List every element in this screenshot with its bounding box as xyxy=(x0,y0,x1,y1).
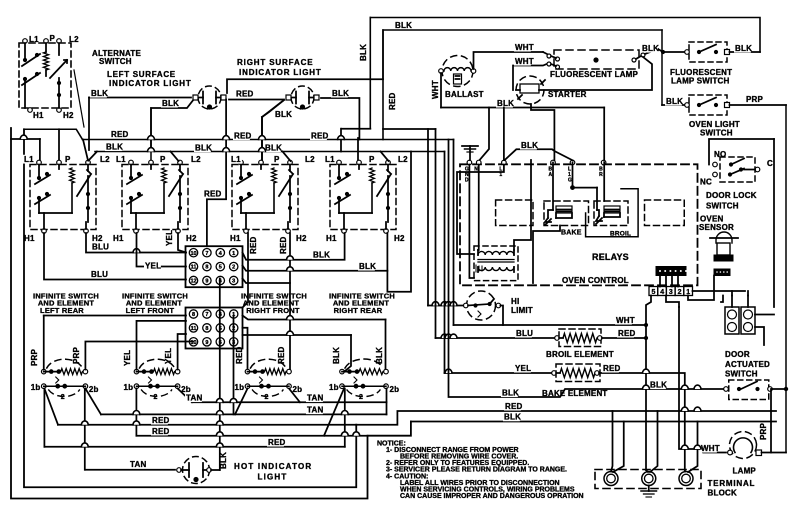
label BLK door2 xyxy=(649,380,667,389)
label RED between lights xyxy=(235,89,254,98)
label RED bus 2 xyxy=(233,131,252,140)
oven control pin label N xyxy=(474,167,478,173)
wire bake out xyxy=(533,226,560,284)
wire starter to BA xyxy=(531,104,554,160)
label INDICATOR LIGHT xyxy=(109,79,192,88)
broil element xyxy=(555,329,602,347)
svg-text:BLK: BLK xyxy=(195,144,212,153)
labels H row xyxy=(24,234,405,243)
hi limit xyxy=(464,291,501,320)
svg-text:10: 10 xyxy=(190,251,196,257)
junction fluor xyxy=(661,50,665,54)
label SWITCH oven light xyxy=(700,129,733,138)
svg-text:BLK: BLK xyxy=(666,97,683,106)
label BLK top xyxy=(394,21,412,30)
svg-text:H2: H2 xyxy=(63,111,74,120)
label HI xyxy=(511,297,519,306)
label LIMIT xyxy=(511,306,533,315)
alternate switch terminal P xyxy=(44,39,49,44)
labels L1 P L2 bank 3 xyxy=(230,155,316,164)
svg-text:BLU: BLU xyxy=(92,243,109,252)
svg-text:TAN: TAN xyxy=(186,394,202,403)
label RED vert 3 xyxy=(235,346,244,364)
label OVEN CONTROL xyxy=(561,276,629,285)
wire TAN a xyxy=(192,401,387,403)
oven control terminal L1 xyxy=(502,160,507,165)
svg-text:BLK: BLK xyxy=(106,143,123,152)
svg-text:TAN: TAN xyxy=(307,394,323,403)
label BAKE ELEMENT xyxy=(542,389,608,398)
wire right light to vert xyxy=(321,98,359,129)
wire conn lower r1 xyxy=(243,316,386,370)
wire door sw out xyxy=(772,387,788,391)
label INFINITE SWITCH 2 xyxy=(122,292,188,301)
label RED long xyxy=(504,402,523,411)
wire L2 feeds xyxy=(83,140,389,162)
label RED broil xyxy=(617,329,636,338)
wire sw2 left up xyxy=(137,321,187,370)
svg-text:RED: RED xyxy=(311,132,329,141)
svg-text:SENSOR: SENSOR xyxy=(699,223,734,232)
wire vert 371 down xyxy=(369,18,371,129)
svg-text:BLOCK: BLOCK xyxy=(708,489,737,498)
labels L1 P L2 bank 4 xyxy=(324,155,409,164)
label OVEN sensor xyxy=(700,215,723,224)
svg-text:BLK: BLK xyxy=(735,44,752,53)
wire left rail 1 xyxy=(11,128,411,499)
svg-text:BLK: BLK xyxy=(332,89,349,98)
svg-text:BLU: BLU xyxy=(91,270,108,279)
wire H2-2 drop xyxy=(178,233,186,253)
label WHT long xyxy=(615,316,635,325)
svg-text:TAN: TAN xyxy=(130,460,146,469)
label LEFT REAR xyxy=(40,306,84,315)
surface switch bank 1 xyxy=(30,160,96,233)
svg-text:BALLAST: BALLAST xyxy=(445,90,484,99)
crossing jumps bottom xyxy=(81,398,359,446)
surface switch bank 3 xyxy=(232,160,298,233)
wire BLK lower to left light xyxy=(151,99,194,150)
wire BLK bus xyxy=(95,151,445,153)
svg-text:9: 9 xyxy=(205,279,208,285)
wire plugA up xyxy=(731,296,733,308)
svg-text:RED: RED xyxy=(152,416,170,425)
svg-text:H2: H2 xyxy=(296,234,307,243)
label RED vert H23 xyxy=(279,236,288,254)
wire P4 feed xyxy=(357,138,359,160)
wire BLU 1 xyxy=(86,233,186,253)
label LAMP SWITCH xyxy=(671,77,730,86)
crossing jumps hi limit xyxy=(432,302,457,306)
label BLK oven light xyxy=(665,97,683,106)
svg-text:BROIL ELEMENT: BROIL ELEMENT xyxy=(546,350,614,359)
transformer bottom coil xyxy=(478,267,514,272)
label WHT1 xyxy=(514,43,534,52)
label STARTER xyxy=(548,90,587,99)
label RED bus 1 xyxy=(110,130,129,139)
wire vert 383 down xyxy=(382,30,384,140)
wire RED bus xyxy=(83,139,454,141)
label PRP xyxy=(745,95,764,104)
label TAN hot xyxy=(129,460,146,469)
svg-text:A: A xyxy=(549,172,553,178)
svg-text:C: C xyxy=(767,159,773,168)
ballast right terminal xyxy=(471,69,476,74)
label SWITCH door lock xyxy=(706,202,739,211)
svg-text:WHT: WHT xyxy=(701,444,720,453)
label RED bottom 3 xyxy=(267,438,286,447)
oven control pin label BR xyxy=(599,167,603,178)
svg-text:BLK: BLK xyxy=(650,381,667,390)
svg-text:RED: RED xyxy=(603,364,621,373)
wire conn blocks link xyxy=(219,279,221,342)
wire cluster top line xyxy=(383,128,436,130)
label RIGHT FRONT xyxy=(246,306,300,315)
label AND ELEMENT 3 xyxy=(243,299,300,308)
svg-text:H1: H1 xyxy=(113,234,124,243)
label BLU 1 xyxy=(91,242,109,251)
wire sw1 right up xyxy=(85,342,193,370)
label BLK vert 4 xyxy=(375,347,384,364)
wire WHT1 xyxy=(474,52,550,69)
label NO xyxy=(714,150,726,159)
plug block B xyxy=(741,307,755,334)
label BAKE xyxy=(561,230,582,237)
wire RED long xyxy=(356,411,776,425)
svg-text:SWITCH: SWITCH xyxy=(725,370,758,379)
label BROIL ELEMENT xyxy=(546,350,614,359)
label DOOR LOCK xyxy=(706,191,757,200)
svg-text:HOT INDICATOR: HOT INDICATOR xyxy=(234,462,312,471)
wire RED bottom 3 xyxy=(44,446,344,448)
svg-text:2: 2 xyxy=(232,265,235,271)
wire vert 774 xyxy=(773,139,775,307)
label RED bottom 2 xyxy=(151,427,170,436)
wire conn lower r2 xyxy=(243,328,248,370)
svg-text:RED: RED xyxy=(249,236,258,254)
wire conn pins down xyxy=(220,316,234,471)
label INFINITE SWITCH 3 xyxy=(241,292,307,301)
svg-text:L2: L2 xyxy=(398,155,408,164)
svg-text:PRP: PRP xyxy=(759,422,768,440)
wire strip 1 right xyxy=(688,276,714,301)
label BLK fluor sw left xyxy=(641,44,659,53)
svg-text:1b: 1b xyxy=(329,383,339,392)
svg-text:R: R xyxy=(599,172,603,178)
svg-text:7: 7 xyxy=(205,251,208,257)
wire u4 2b vert xyxy=(386,389,388,415)
label ALTERNATE xyxy=(92,49,142,58)
wire WHT long xyxy=(454,140,647,326)
svg-text:RED: RED xyxy=(152,427,170,436)
wire plug feeds xyxy=(721,296,774,346)
label AND ELEMENT 1 xyxy=(38,299,95,308)
strip wires xyxy=(660,276,678,287)
svg-text:3: 3 xyxy=(669,289,673,296)
svg-text:RED: RED xyxy=(279,236,288,254)
svg-text:BLK: BLK xyxy=(521,141,538,150)
wire u2 2b diag xyxy=(178,389,192,403)
svg-text:H2: H2 xyxy=(186,234,197,243)
wire H2-3 drop xyxy=(243,233,291,370)
wire GND drop xyxy=(469,165,474,279)
label RED bus 3 xyxy=(310,131,329,140)
wire RED broil xyxy=(602,337,646,339)
wire vert V1 xyxy=(646,296,651,471)
wire RED bottom 1 xyxy=(58,424,356,426)
label H2 xyxy=(63,111,74,120)
crossing jumps right xyxy=(643,369,701,449)
svg-text:OVEN CONTROL: OVEN CONTROL xyxy=(562,276,629,285)
label NC xyxy=(700,178,712,187)
label INFINITE SWITCH 1 xyxy=(33,292,99,301)
wire T2 feeds xyxy=(646,411,658,472)
oven control box xyxy=(460,164,698,285)
fluorescent lamp box xyxy=(554,50,639,69)
wire T3 feeds xyxy=(685,422,698,473)
label BLK left light xyxy=(90,89,108,98)
wire BLK relay path xyxy=(505,149,573,160)
wire plugB up xyxy=(747,296,749,308)
svg-text:L2: L2 xyxy=(191,155,201,164)
label RED bake xyxy=(602,364,621,373)
svg-text:WHT: WHT xyxy=(616,316,635,325)
wire sw2 right up xyxy=(178,334,186,370)
svg-text:L2: L2 xyxy=(69,35,79,44)
connector block upper xyxy=(186,246,243,287)
oven control terminal strip xyxy=(649,287,693,297)
wire BLK diag to right light xyxy=(262,100,284,160)
svg-text:BAKE: BAKE xyxy=(561,230,582,237)
wire switch out BLK xyxy=(730,51,761,53)
label FLUORESCENT LAMP xyxy=(550,70,639,79)
svg-text:RED: RED xyxy=(235,346,244,364)
label BLK H24 xyxy=(358,262,376,271)
infinite switch unit 3 xyxy=(245,359,291,401)
label BLK 3 xyxy=(274,110,292,119)
label RED bottom 1 xyxy=(151,416,170,425)
svg-text:HI: HI xyxy=(511,297,519,306)
svg-text:SWITCH: SWITCH xyxy=(700,129,733,138)
labels 1b 2b unit 1 xyxy=(31,383,99,394)
labels 1b 2b unit 4 xyxy=(329,383,399,394)
wire H2-4 drop xyxy=(243,152,412,292)
wire to oven light switch xyxy=(662,104,685,106)
label L1 xyxy=(29,35,39,44)
ballast circle xyxy=(442,56,473,87)
bake relay box xyxy=(544,201,589,226)
label BLK oven feed xyxy=(496,99,514,108)
fluorescent lamp right pin xyxy=(632,49,658,62)
label BLU element xyxy=(515,329,533,338)
svg-text:PRP: PRP xyxy=(30,348,39,366)
label ACTUATED xyxy=(725,360,770,369)
label PRP vert 1 xyxy=(30,348,39,366)
svg-text:2b: 2b xyxy=(390,385,400,394)
wire P2 feed xyxy=(150,108,152,160)
svg-text:BLK: BLK xyxy=(504,413,521,422)
wire left rail 2 xyxy=(24,129,356,487)
svg-text:L1: L1 xyxy=(29,35,39,44)
wire u3 2b diag xyxy=(289,389,300,403)
label RED vert xyxy=(388,92,397,110)
svg-text:H1: H1 xyxy=(326,234,337,243)
svg-text:8: 8 xyxy=(192,312,195,318)
label RED vert 4 xyxy=(277,346,286,364)
label BLK door xyxy=(501,388,519,397)
svg-text:YEL: YEL xyxy=(145,262,161,271)
terminal block T3 xyxy=(679,472,693,486)
wire hi limit feed xyxy=(428,129,464,306)
svg-text:BLK: BLK xyxy=(395,21,412,30)
label LEFT FRONT xyxy=(126,306,175,315)
label LAMP xyxy=(733,467,757,476)
svg-text:2b: 2b xyxy=(89,385,99,394)
broil relay internals xyxy=(596,206,620,224)
labels L1 P L2 bank 2 xyxy=(115,155,202,164)
hot indicator light xyxy=(177,457,212,484)
wire T1 feeds xyxy=(611,411,624,472)
label YEL vert 2 xyxy=(123,350,132,366)
label BLK vert xyxy=(359,44,368,61)
svg-text:P: P xyxy=(160,155,166,164)
svg-text:11: 11 xyxy=(191,265,197,271)
left surface indicator light xyxy=(193,86,226,110)
svg-text:H2: H2 xyxy=(394,234,405,243)
svg-text:RIGHT REAR: RIGHT REAR xyxy=(334,306,383,315)
label PRP vert 2 xyxy=(72,346,81,364)
wire TAN hot light xyxy=(85,469,175,471)
label WHT lamp xyxy=(700,444,720,453)
svg-text:L2: L2 xyxy=(100,155,110,164)
wire u1 1b vert xyxy=(43,389,45,447)
svg-text:RELAYS: RELAYS xyxy=(592,252,629,262)
oven control connector block xyxy=(656,267,687,276)
oven sensor xyxy=(710,232,738,261)
svg-text:YEL: YEL xyxy=(123,350,132,366)
alternate switch pointer wire xyxy=(74,70,84,127)
svg-text:12: 12 xyxy=(190,279,196,285)
wire BLK to left light xyxy=(89,98,191,151)
svg-text:LEFT SURFACE: LEFT SURFACE xyxy=(107,70,176,79)
right surface indicator light xyxy=(286,86,319,110)
labels L1 P L2 bank 1 xyxy=(23,155,111,164)
wire RED bottom 2 xyxy=(136,435,367,437)
label RED vert H3 xyxy=(249,236,258,254)
wire H1-4 drop xyxy=(243,233,345,260)
svg-text:5: 5 xyxy=(652,289,656,296)
wire P1 feed xyxy=(58,129,60,160)
wire RED drop to connector xyxy=(207,100,226,247)
wire vert 662 xyxy=(661,30,663,105)
alternate switch internals xyxy=(22,43,67,108)
terminal block T2 xyxy=(642,472,656,486)
wire P3 feed xyxy=(262,100,284,160)
svg-text:BLK: BLK xyxy=(265,144,282,153)
label WHT vert ballast xyxy=(431,80,440,99)
label INDICATOR LIGHT 2 xyxy=(239,68,322,77)
relay placeholder box left xyxy=(496,200,533,226)
svg-text:BLK: BLK xyxy=(162,99,179,108)
svg-text:LAMP: LAMP xyxy=(733,467,757,476)
wire plug strip h xyxy=(693,291,749,296)
label SWITCH actuated xyxy=(725,370,758,379)
svg-text:7: 7 xyxy=(205,312,208,318)
wire lamp right xyxy=(762,389,787,453)
door actuated switch box xyxy=(729,380,769,400)
svg-text:WHT: WHT xyxy=(515,57,534,66)
labels 1b 2b unit 3 xyxy=(235,383,303,394)
starter internals xyxy=(516,80,545,99)
door lock switch box xyxy=(720,157,755,182)
svg-text:2b: 2b xyxy=(293,385,303,394)
fluorescent lamp switch box xyxy=(689,42,727,62)
wire L1 drop xyxy=(503,108,505,161)
junction V1 red xyxy=(644,336,648,340)
label SWITCH xyxy=(99,57,132,66)
alternate switch terminal L2t xyxy=(57,39,62,44)
lamp xyxy=(728,432,762,459)
notice block xyxy=(377,441,584,500)
svg-text:11: 11 xyxy=(191,326,197,332)
wire u4 1b vert xyxy=(344,389,346,447)
bake element xyxy=(552,364,600,382)
label H1 xyxy=(33,111,44,120)
svg-text:G: G xyxy=(568,177,572,183)
oven control pin label GND xyxy=(465,167,469,184)
svg-text:CAN CAUSE IMPROPER AND DANGERO: CAN CAUSE IMPROPER AND DANGEROUS OPRATIO… xyxy=(400,493,584,500)
svg-text:INDICATOR LIGHT: INDICATOR LIGHT xyxy=(109,79,192,88)
label BLU 2 xyxy=(90,270,108,279)
wire from left light up over xyxy=(227,79,383,93)
label YEL vert 1 xyxy=(165,230,174,246)
ballast coil xyxy=(444,68,471,84)
label TAN a1 xyxy=(185,393,202,402)
svg-text:PRP: PRP xyxy=(746,95,764,104)
alternate switch box xyxy=(19,43,71,108)
svg-text:P: P xyxy=(274,155,280,164)
alternate switch terminal H1 xyxy=(28,108,33,113)
svg-text:BLK: BLK xyxy=(91,89,108,98)
svg-text:BLK: BLK xyxy=(275,110,292,119)
wire vert 786 right rail xyxy=(785,105,787,453)
svg-text:2: 2 xyxy=(61,394,65,401)
infinite switch unit 4 xyxy=(340,359,389,401)
svg-text:YEL: YEL xyxy=(164,348,173,364)
ground symbol terminal block xyxy=(641,486,657,498)
oven control pin label BA xyxy=(549,167,553,178)
svg-text:BLU: BLU xyxy=(516,329,533,338)
label BLK bus 2 xyxy=(194,143,212,152)
labels 1b 2b unit 2 xyxy=(124,383,191,394)
wire bank4 feed cluster xyxy=(338,129,371,152)
transformer core xyxy=(478,260,514,263)
alternate switch terminal H2 xyxy=(57,108,62,113)
svg-text:PRP: PRP xyxy=(72,346,81,364)
svg-text:FLUORESCENT LAMP: FLUORESCENT LAMP xyxy=(550,70,639,79)
wire BR drop xyxy=(603,108,605,161)
wire u4 1b diag xyxy=(324,389,344,436)
label RELAYS xyxy=(592,252,629,262)
label AND ELEMENT 4 xyxy=(333,299,390,308)
svg-text:1: 1 xyxy=(232,251,235,257)
surface switch bank 4 xyxy=(330,160,396,233)
oven control terminal GND xyxy=(467,160,472,165)
svg-text:BLK: BLK xyxy=(359,262,376,271)
wire H1-3 drop xyxy=(243,233,249,308)
wire transformer right xyxy=(514,160,531,250)
svg-text:TAN: TAN xyxy=(307,406,323,415)
